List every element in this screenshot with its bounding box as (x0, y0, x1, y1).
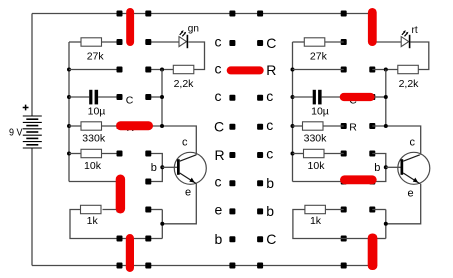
wire LED anode row (148, 41, 179, 43)
svg-text:b: b (374, 162, 380, 174)
node squares: row 2 (117, 67, 123, 73)
LED D2 red (401, 30, 409, 48)
wire base lead (162, 166, 177, 168)
node cap junction (160, 95, 164, 99)
wire cap row right-left (293, 96, 313, 98)
node 2,2k junction (160, 68, 164, 72)
svg-text:gn: gn (188, 24, 199, 35)
node squares: row 1 (117, 39, 123, 45)
wire 1k left loop right (293, 210, 372, 239)
svg-text:b: b (266, 175, 274, 191)
wire 1k right to col A2 (325, 209, 343, 211)
wire 10k to col A2 (324, 153, 344, 155)
resistor R6 27k (304, 38, 325, 46)
node squares: top wire (117, 11, 123, 17)
resistor R9 10k (304, 149, 325, 157)
wire 330k row to collector (148, 126, 196, 155)
capacitor C1 10u (89, 90, 98, 105)
node squares: row 4 (117, 123, 123, 129)
jumper red bottom-right (368, 234, 378, 271)
svg-text:10k: 10k (84, 160, 102, 172)
node 2,2k junction right (384, 68, 388, 72)
wire cap to col A2 (322, 96, 344, 98)
resistor R8 330k (303, 122, 324, 130)
resistor R1 27k (81, 38, 102, 46)
resistor R10 1k (305, 205, 326, 213)
svg-text:C: C (266, 35, 276, 51)
jumper red left r6-r7 (116, 175, 125, 214)
resistor R2 2,2k (173, 65, 194, 73)
node rail-r5 (67, 152, 71, 156)
wire emitter down (162, 184, 196, 224)
wire 330k row right-left (293, 125, 303, 127)
wire 330k row left (69, 125, 81, 127)
wire r2 rail to col A (69, 69, 120, 71)
wire rail bottom to r6 right (293, 181, 344, 183)
svg-text:2,2k: 2,2k (399, 78, 420, 90)
svg-text:1k: 1k (87, 215, 99, 227)
jumper red top-right (368, 8, 377, 46)
svg-text:9 V: 9 V (9, 127, 23, 138)
transistor Q2 (398, 152, 430, 184)
svg-text:e: e (407, 188, 413, 200)
battery plus sign (23, 105, 29, 111)
capacitor C2 10u (313, 90, 322, 105)
jumper red cap row right (340, 93, 375, 101)
svg-text:c: c (266, 88, 273, 104)
node cap junction right (384, 95, 388, 99)
wire 1k right to bar (103, 209, 120, 211)
wire 10k row left (69, 153, 81, 155)
wire 330k row to collector right (372, 126, 420, 155)
wire 27k row right-left (293, 41, 305, 43)
node rail2-r2 (291, 68, 295, 72)
wire 10k to col A (102, 153, 120, 155)
wire base lead right (386, 166, 401, 168)
svg-text:27k: 27k (310, 51, 328, 63)
node squares: row 5 (117, 151, 123, 157)
node rail-r4 (67, 124, 71, 128)
svg-text:c: c (215, 61, 222, 77)
node 330k junction (160, 124, 164, 128)
wire LED cathode to corner (188, 42, 204, 70)
wire bar to LED anode (372, 41, 401, 43)
wire r7 stub right (372, 209, 386, 211)
svg-text:c: c (215, 33, 222, 49)
svg-text:c: c (266, 145, 273, 161)
svg-text:C: C (126, 94, 134, 106)
resistor R4 10k (81, 149, 102, 157)
svg-text:b: b (215, 231, 223, 247)
battery BT1 9V (23, 116, 42, 148)
wire LED cathode to corner right (411, 42, 429, 70)
wire junction vertical right (385, 70, 387, 127)
node rail2-r4 (291, 124, 295, 128)
wire top rail (32, 13, 372, 15)
wire 330k to red bar (102, 125, 120, 127)
wire emitter down right (386, 184, 421, 224)
LED D1 green (179, 30, 187, 48)
svg-text:R: R (349, 122, 357, 134)
node emitter junction right (384, 222, 388, 226)
svg-text:R: R (266, 62, 276, 78)
wire base bracket right (372, 154, 386, 182)
wire bottom rail (32, 265, 372, 267)
wire cap to col A (98, 96, 119, 98)
jumper red bottom-left (126, 234, 134, 272)
wire cap row col B to junction (148, 96, 162, 98)
wire base bracket (148, 154, 162, 182)
wire 1k left loop (70, 210, 162, 239)
svg-text:c: c (182, 137, 188, 149)
jumper red r6 row right (340, 175, 377, 184)
wire 27k to node (102, 41, 120, 43)
node rail2-r5 (291, 152, 295, 156)
node rail-r2 (67, 68, 71, 72)
svg-text:10µ: 10µ (88, 106, 106, 118)
node base junction right (384, 165, 388, 169)
svg-text:2,2k: 2,2k (174, 78, 195, 90)
svg-text:rt: rt (412, 25, 418, 36)
svg-text:e: e (185, 187, 191, 199)
wire cap row col B2 to junction (372, 96, 386, 98)
wire cap row left (69, 96, 89, 98)
svg-text:10k: 10k (308, 160, 326, 172)
node emitter junction (160, 222, 164, 226)
wire r8 stub right (372, 238, 386, 240)
node squares: bottom wire (117, 263, 123, 269)
transistor Q1 (174, 152, 206, 184)
svg-text:b: b (266, 203, 274, 219)
node rail-r3 (67, 95, 71, 99)
svg-text:R: R (215, 147, 225, 163)
svg-text:330k: 330k (304, 133, 328, 145)
node squares: row 7 (117, 207, 123, 213)
wire emitter bracket (161, 210, 163, 239)
node squares: row 8 (117, 236, 123, 242)
svg-text:10µ: 10µ (311, 106, 329, 118)
resistor R7 2,2k (398, 65, 419, 73)
wire r7 stub (148, 209, 162, 211)
jumper red top-left (126, 8, 134, 46)
node base junction (160, 165, 164, 169)
wire 10k row right-left (293, 153, 304, 155)
wire 27k to col A2 (325, 41, 344, 43)
node squares: row 6 (117, 179, 123, 185)
svg-text:e: e (215, 202, 223, 218)
wire 27k row left (69, 41, 81, 43)
jumper red middle row2 (227, 66, 264, 74)
wire battery left rail (31, 14, 33, 266)
wire emitter bracket right (385, 210, 387, 239)
svg-text:C: C (214, 119, 224, 135)
svg-text:c: c (409, 137, 415, 149)
wire 330k to col A2 (323, 125, 344, 127)
wire 2,2k to col B2 (372, 69, 398, 71)
node squares: row 3 (117, 94, 123, 100)
svg-text:c: c (215, 174, 222, 190)
svg-text:1k: 1k (310, 215, 322, 227)
resistor R3 330k (81, 122, 102, 130)
svg-text:c: c (215, 88, 222, 104)
wire 2,2k to node B (148, 69, 173, 71)
svg-text:330k: 330k (82, 133, 106, 145)
node rail2-r3 (291, 95, 295, 99)
wire junction vertical (161, 70, 163, 127)
svg-text:27k: 27k (87, 51, 105, 63)
node 330k junction right (384, 124, 388, 128)
wire r2 rail to col A2 (293, 69, 344, 71)
wire left component rail (68, 42, 70, 182)
wire right component rail (292, 42, 294, 182)
svg-text:c: c (266, 117, 273, 133)
wire rail bottom to r6 (69, 181, 120, 183)
svg-text:C: C (266, 231, 276, 247)
resistor R5 1k (81, 205, 102, 213)
jumper red 330k row (116, 121, 153, 130)
svg-text:b: b (151, 162, 157, 174)
